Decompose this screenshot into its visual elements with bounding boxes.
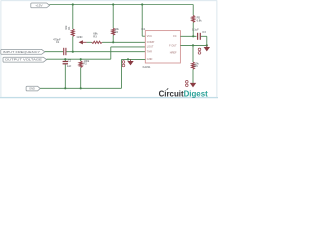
svg-text:GND: GND — [147, 58, 153, 61]
svg-text:0.1uF: 0.1uF — [192, 27, 199, 31]
svg-text:GND: GND — [77, 35, 83, 39]
svg-text:CircuitDigest: CircuitDigest — [159, 89, 208, 98]
svg-text:VCC: VCC — [147, 35, 152, 38]
svg-text:OUTPUT VOLTAGE: OUTPUT VOLTAGE — [5, 58, 42, 62]
svg-text:THR: THR — [147, 51, 152, 54]
svg-text:R2: R2 — [84, 62, 88, 66]
svg-text:KA331: KA331 — [143, 65, 151, 69]
svg-text:F OUT: F OUT — [169, 44, 177, 47]
svg-text:INPUT FREQUENCY: INPUT FREQUENCY — [3, 50, 41, 54]
svg-text:FC: FC — [173, 35, 177, 38]
svg-text:C3: C3 — [202, 30, 206, 34]
svg-text:R6: R6 — [194, 64, 198, 68]
svg-text:C1: C1 — [56, 40, 60, 44]
svg-text:R1: R1 — [67, 26, 71, 30]
svg-text:IC1: IC1 — [141, 27, 146, 31]
svg-text:C2: C2 — [68, 58, 72, 62]
svg-text:1uF: 1uF — [67, 64, 72, 68]
svg-text:R4: R4 — [115, 30, 119, 34]
svg-text:GND: GND — [29, 87, 35, 91]
svg-text:R3: R3 — [93, 34, 97, 38]
svg-text:+15V: +15V — [35, 3, 43, 7]
svg-text:HREF: HREF — [170, 52, 177, 55]
svg-text:6.8k: 6.8k — [197, 18, 203, 22]
svg-text:COMP: COMP — [147, 41, 155, 44]
svg-text:LOUT: LOUT — [147, 46, 154, 49]
